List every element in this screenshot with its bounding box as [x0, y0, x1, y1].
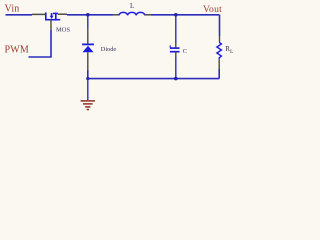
wire diode anode pin	[87, 52, 89, 70]
svg-text:L: L	[130, 2, 134, 10]
wire L right pin	[145, 14, 151, 16]
wire gate to PWM	[29, 30, 52, 57]
wire ground stub	[87, 79, 89, 101]
svg-text:Vin: Vin	[5, 4, 20, 15]
wire MOS to L	[67, 14, 113, 16]
svg-text:C: C	[183, 48, 187, 55]
wire gate pin (dark upper part)	[50, 20, 52, 30]
wire MOS source pin	[58, 13, 67, 15]
svg-text:Vout: Vout	[203, 4, 222, 15]
inductor L	[119, 12, 145, 15]
wire capacitor bottom to ground rail	[175, 57, 177, 79]
diode (freewheeling)	[82, 44, 94, 52]
wire output corner down to RL	[219, 15, 221, 36]
wire diode bottom to ground rail	[87, 70, 89, 79]
junction at capacitor top	[174, 13, 178, 17]
capacitor C	[170, 45, 180, 51]
wire L to output corner	[151, 14, 220, 16]
wire diode cathode pin	[87, 28, 89, 44]
wire L left pin	[113, 14, 119, 16]
wire capacitor bottom pin	[175, 52, 177, 57]
wire MOS drain pin	[32, 13, 46, 15]
svg-text:MOS: MOS	[56, 26, 70, 33]
ground rail wire	[88, 78, 219, 80]
junction at diode top	[86, 13, 90, 17]
wire capacitor top stub	[175, 15, 177, 43]
wire RL bottom to ground rail	[218, 69, 220, 79]
svg-text:PWM: PWM	[5, 45, 30, 56]
svg-text:RL: RL	[225, 45, 234, 55]
wire RL bottom pin	[218, 59, 220, 69]
ground	[81, 101, 95, 110]
junction at diode bottom	[86, 77, 89, 80]
wire capacitor top pin	[175, 43, 177, 47]
svg-text:Diode: Diode	[101, 46, 117, 53]
transistor MOS (power MOSFET)	[45, 12, 60, 19]
wire RL top pin	[219, 36, 221, 42]
wire Vin to MOS	[6, 14, 33, 16]
wire diode top stub	[87, 15, 89, 28]
resistor RL	[217, 42, 222, 59]
junction at capacitor bottom	[174, 77, 178, 81]
